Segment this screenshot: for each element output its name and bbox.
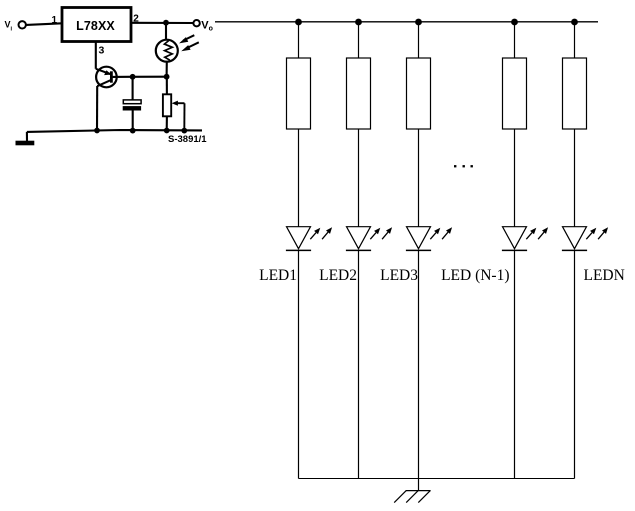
resistor R2 (ballast resistor, column 2)	[347, 58, 371, 129]
svg-text:S-3891/1: S-3891/1	[168, 134, 207, 145]
+V distribution rail (top)	[215, 21, 598, 23]
capacitor C1 (electrolytic: hollow + solid plate)	[123, 100, 141, 111]
wire from LED1 cathode to ground rail	[298, 250, 300, 478]
label LEDN	[584, 267, 625, 284]
svg-text:LED (N-1): LED (N-1)	[441, 267, 509, 284]
wire potentiometer bottom to ground rail	[166, 116, 168, 130]
wire from LED3 cathode to ground rail	[418, 250, 420, 478]
light-emission arrows of LEDN	[586, 227, 608, 239]
input terminal (Vi, open circle)	[19, 21, 26, 28]
light arrows onto LDR	[179, 35, 199, 51]
junction dot: LDR bottom / potentiometer top	[164, 74, 170, 80]
wire from resistor R2 to LED2 anode	[358, 129, 360, 227]
wire LDR bottom to node	[166, 62, 168, 77]
ellipsis (more branches)	[454, 165, 473, 167]
light-emission arrows of LED2	[370, 227, 392, 239]
label Vo (output voltage)	[201, 20, 213, 33]
light-emission arrows of LED1	[310, 227, 332, 239]
junction dot on +V rail, column 4	[511, 19, 518, 26]
figure number S-3891/1	[168, 134, 207, 145]
wire from resistor R5 to LEDN anode	[574, 129, 576, 227]
junction dot: capacitor C1 top	[130, 74, 136, 80]
svg-text:LED3: LED3	[380, 267, 418, 284]
wire from LED (N-1) cathode to ground rail	[514, 250, 516, 478]
pin number 2	[133, 14, 139, 25]
svg-text:1: 1	[51, 15, 57, 26]
pin number 1	[51, 15, 57, 26]
label LED (N-1)	[441, 267, 509, 284]
junction node at pin 2 / LDR top	[163, 20, 169, 26]
light-emission arrows of LED (N-1)	[526, 227, 548, 239]
wire from +V rail to resistor R3	[418, 22, 420, 58]
wire from +V rail to resistor R5	[574, 22, 576, 58]
junction dot: potentiometer on rail	[164, 128, 170, 134]
wire pin 2 to Vo terminal	[131, 22, 193, 24]
wire from resistor R4 to LED (N-1) anode	[514, 129, 516, 227]
wire pin 3 to transistor Q1	[95, 42, 97, 69]
ground rail of regulator block	[27, 130, 202, 132]
label LED3	[380, 267, 418, 284]
label LED2	[319, 267, 357, 284]
label LED1	[259, 267, 297, 284]
wire rail to ground symbol	[418, 478, 420, 491]
transistor Q1 (PNP, base to the right)	[96, 67, 117, 88]
svg-text:3: 3	[99, 45, 105, 57]
LDR R2 (photoresistor: circle with zigzag)	[156, 40, 178, 62]
wire from +V rail to resistor R1	[298, 22, 300, 58]
resistor R3 (ballast resistor, column 3)	[407, 58, 431, 129]
svg-text:LED2: LED2	[319, 267, 357, 284]
svg-text:LED1: LED1	[259, 267, 297, 284]
wire LDR top (from pin 2 node)	[165, 23, 167, 41]
junction dot on +V rail, column 2	[355, 19, 362, 26]
resistor R4 (ballast resistor, column 4)	[503, 58, 527, 129]
wire from +V rail to resistor R4	[514, 22, 516, 58]
wire from LED2 cathode to ground rail	[358, 250, 360, 478]
regulator U1 L78XX (box)	[62, 8, 131, 42]
junction dot on +V rail, column 5	[571, 19, 578, 26]
junction dot on +V rail, column 3	[415, 19, 422, 26]
wire wiper to ground rail	[183, 103, 185, 131]
junction dot: wiper return on rail	[181, 128, 187, 134]
wire Q1 base to node (base line)	[113, 76, 167, 78]
ground symbol (hatched)	[394, 491, 430, 503]
wire Q1 emitter to ground rail	[96, 86, 98, 131]
output terminal (Vo, open circle)	[193, 20, 199, 26]
junction dot: emitter on rail	[94, 128, 100, 134]
svg-text:L78XX: L78XX	[76, 19, 115, 33]
resistor R5 (ballast resistor, column 5)	[563, 58, 587, 129]
wire from LEDN cathode to ground rail	[574, 250, 576, 478]
junction dot: capacitor on rail	[130, 128, 136, 134]
resistor R1 (ballast resistor, column 1)	[287, 58, 311, 129]
potentiometer R3 (box)	[163, 94, 171, 116]
ground symbol (left, bar type)	[16, 132, 35, 145]
wire from resistor R3 to LED3 anode	[418, 129, 420, 227]
wire node to potentiometer R3	[166, 77, 168, 95]
LED LED1 (diode triangle + cathode bar)	[286, 227, 311, 251]
LED LED2 (diode triangle + cathode bar)	[346, 227, 371, 251]
LED LED (N-1) (diode triangle + cathode bar)	[502, 227, 527, 251]
ground return rail (bottom)	[299, 478, 575, 480]
svg-text:LEDN: LEDN	[584, 267, 625, 284]
wire from resistor R1 to LED1 anode	[298, 129, 300, 227]
junction dot on +V rail, column 1	[295, 19, 302, 26]
wire capacitor C1 to ground rail	[132, 111, 134, 131]
label L78XX	[76, 19, 115, 33]
LED LED3 (diode triangle + cathode bar)	[406, 227, 431, 251]
LED LEDN (diode triangle + cathode bar)	[562, 227, 587, 251]
label Vi (input voltage)	[5, 20, 13, 33]
wire Vi terminal to pin 1	[26, 23, 62, 25]
wire node to capacitor C1	[132, 77, 134, 100]
wire from +V rail to resistor R2	[358, 22, 360, 58]
pin number 3	[99, 45, 105, 57]
light-emission arrows of LED3	[430, 227, 452, 239]
potentiometer wiper arrow	[172, 101, 185, 106]
